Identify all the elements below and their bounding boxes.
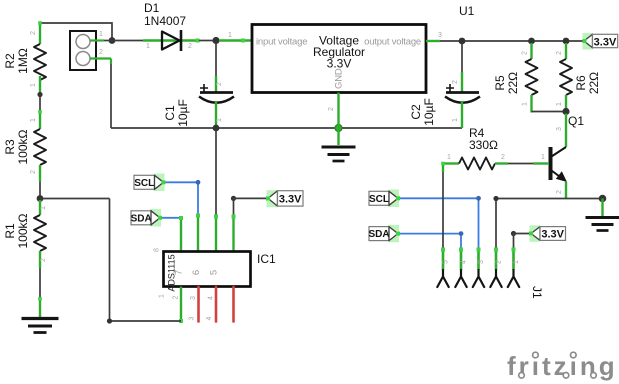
svg-text:GND: GND [334,68,345,89]
header J1 pin2 lead [495,249,498,270]
resistor R5 pin2 lead [530,43,532,59]
wire collector node down [565,114,567,148]
wire gnd rail down to IC pin6 [215,130,217,216]
transistor Q1 emitter arrowhead [556,171,567,182]
header J1 pin1 lead [512,249,515,270]
bendpoint dot 3.3V mid wire [231,196,236,201]
diode D1 triangle [162,32,180,50]
resistor R4 body [459,158,495,170]
net flag 3.3V top right arrow [584,34,593,47]
bendpoint dot emitter rail left [493,196,498,201]
header J1 pin5 fork [437,270,448,287]
net flag SDA right highlight [388,225,399,243]
IC1 pin4 stub unrouted [215,287,218,322]
IC1 pin6 lead [215,216,217,252]
transistor Q1 emitter lead [565,182,567,199]
bendpoint dot 3.3V bottom wire [511,231,516,236]
svg-text:3.3V: 3.3V [541,229,564,241]
wire node A to IC net [40,198,110,200]
svg-text:2: 2 [216,82,223,86]
net flag SCL right box [369,191,389,205]
wire node to diode anode [112,40,143,42]
capacitor C1 pin2 lead [215,76,217,92]
svg-text:2: 2 [501,154,505,161]
IC1 pin2 lead bottom [180,287,182,322]
wire R5 bottom to Q1 collector node [532,111,564,113]
wire SDA to IC pin8 [160,217,181,219]
junction dot ground right node [599,195,607,203]
svg-text:1: 1 [447,154,451,161]
net flag SDA right box [369,227,389,241]
svg-text:1: 1 [556,102,563,106]
svg-text:1: 1 [30,83,37,87]
svg-text:1MΩ: 1MΩ [16,48,30,74]
net flag SCL left box [134,175,155,189]
junction dot R6 top node [563,38,570,45]
junction dot Q1 collector node [562,108,569,115]
wire 3.3V flag to J1 pin1 [514,234,531,250]
wire output rail [440,40,584,42]
wire input node down to C1 [215,42,217,76]
svg-text:2: 2 [40,258,47,262]
bendpoint dot between R2 and R3 [37,92,42,97]
ground symbol bottom right [586,218,619,231]
connector J? 2-pin screw terminal box [70,31,96,70]
wire gnd node to ground symbol [337,130,339,145]
capacitor C2 pin2 lead [461,72,463,92]
capacitor C1 pin1 lead [215,101,217,127]
svg-text:3: 3 [556,127,563,131]
svg-text:3.3V: 3.3V [279,193,302,205]
terminal node SDA right tip [396,232,400,236]
diode D1 pin1 lead [143,39,199,41]
IC1 pin7 lead [197,215,199,252]
IC1 pin3 stub unrouted [197,287,200,322]
resistor R3 pin2 lead [39,165,41,182]
net flag 3.3V mid box [278,191,304,206]
svg-text:1: 1 [30,118,37,122]
fritzing watermark rings [519,352,597,378]
svg-text:2: 2 [30,170,37,174]
svg-text:1: 1 [228,32,232,39]
svg-text:output voltage: output voltage [364,37,421,48]
svg-text:100kΩ: 100kΩ [16,213,30,248]
resistor R1 pin1 lead [39,200,41,215]
svg-text:8: 8 [154,248,161,252]
header J1 pin4 fork [455,270,466,287]
bendpoint dot SDA wire [459,231,464,236]
ground symbol below regulator [322,147,356,161]
svg-text:10µF: 10µF [422,98,436,126]
svg-text:1: 1 [513,260,520,264]
svg-text:5: 5 [209,270,220,275]
connector pin1 stub [90,39,104,41]
IC1 pin5 lead [232,216,234,252]
capacitor C1 plus sign [200,84,208,92]
junction dot R5 top node [528,38,535,45]
svg-text:J1: J1 [530,286,544,299]
capacitor C1 bottom plate arc [199,97,234,103]
svg-text:2: 2 [99,49,103,56]
svg-text:3: 3 [189,316,196,320]
junction dot regulator gnd on rail [335,124,342,131]
resistor R5 pin1 lead [530,95,532,113]
net flag SDA left highlight [150,209,161,227]
svg-text:2: 2 [30,31,37,35]
svg-text:1: 1 [541,154,545,161]
wire C2 branch down [461,43,463,72]
svg-text:22Ω: 22Ω [506,72,520,94]
net flag 3.3V mid arrow [268,191,278,206]
net flag 3.3V top right highlight [583,33,594,50]
svg-text:R2: R2 [3,53,17,69]
svg-text:1: 1 [522,102,529,106]
net flag 3.3V mid highlight [267,190,278,207]
header J1 pin4 lead [460,249,463,270]
transistor Q1 emitter diagonal [552,171,564,180]
capacitor C1 top plate [200,91,233,94]
svg-text:IC1: IC1 [257,252,276,266]
net flag SDA left box [131,211,152,225]
resistor R4 pin1 lead [443,162,459,164]
junction dot C2 top node [459,38,466,45]
capacitor C2 bottom plate arc [445,97,480,103]
resistor R2 pin1 lead [39,76,41,92]
wire ground node down [601,199,603,217]
regulator output pin lead [426,40,440,42]
svg-text:3.3V: 3.3V [594,36,617,48]
transistor Q1 bar [549,147,553,180]
svg-text:2: 2 [556,190,563,194]
connector circle pin2 [76,52,90,66]
resistor R1 body [34,215,46,251]
header J1 pin2 fork [490,270,501,287]
svg-text:1: 1 [99,31,103,38]
svg-text:1: 1 [452,118,459,122]
resistor R5 body [526,59,538,95]
svg-text:6: 6 [191,270,202,275]
resistor R6 pin2 lead [565,43,567,59]
transistor Q1 base lead [533,162,549,164]
svg-text:R6: R6 [574,75,588,91]
IC1 box [164,252,251,287]
terminal node 3.3V top tip [583,39,587,43]
svg-text:Q1: Q1 [568,114,584,128]
svg-text:3.3V: 3.3V [327,57,352,71]
net flag SCL left highlight [154,174,165,192]
net flag SCL right highlight [388,190,399,208]
junction dot input node [212,37,219,44]
wire SDA to J1 pin4 [398,234,461,249]
svg-text:4: 4 [206,316,213,320]
terminal node 3.3V mid tip [266,196,270,200]
svg-text:2: 2 [188,43,192,50]
wire R4 to Q1 base [508,163,533,165]
IC1 pin stub unrouted third [232,287,235,322]
wire IC pin2 to node A [110,199,182,322]
svg-text:SCL: SCL [369,194,389,205]
wire R2 top to diode node [40,23,112,41]
svg-text:SDA: SDA [131,214,152,225]
wire R2 to R3 [39,95,41,112]
ground symbol below R1 [22,319,59,333]
capacitor C2 top plate [446,91,479,94]
svg-text:C1: C1 [163,105,177,121]
header J1 pin3 fork [473,270,484,287]
svg-text:4: 4 [461,260,468,264]
header J1 pin3 lead [477,249,480,270]
junction dot C1 on ground rail [213,125,220,132]
svg-text:2: 2 [173,295,180,299]
wire SCL to J1 pin3 [398,198,479,249]
svg-text:7: 7 [174,270,185,275]
resistor R3 pin1 lead [39,111,41,129]
wire input node to regulator [219,39,252,41]
svg-text:1: 1 [159,294,166,298]
svg-text:2: 2 [556,51,563,55]
regulator input terminal [241,39,245,43]
net flag 3.3V top right box [593,34,618,47]
net flag SCL left arrow [155,175,164,189]
wire R1 to ground [39,268,41,299]
resistor R3 body [34,129,46,165]
ground rail wire [111,127,462,129]
svg-text:R5: R5 [493,75,507,91]
header J1 pin5 lead [442,249,445,270]
svg-text:U1: U1 [459,4,475,18]
wire emitter rail down to J1 pin2 [495,200,497,249]
svg-text:C2: C2 [409,104,423,120]
net flag 3.3V bottom highlight [530,225,541,242]
capacitor C2 pin1 lead [461,101,463,128]
terminal node SDA left tip [158,216,162,220]
svg-text:R3: R3 [3,139,17,155]
net flag SDA left arrow [151,211,160,225]
svg-text:2: 2 [522,51,529,55]
voltage regulator U1 box [252,25,426,93]
svg-text:5: 5 [443,260,450,264]
wire diode to input node [199,40,213,42]
transistor Q1 collector diagonal [552,147,567,157]
svg-text:2: 2 [452,80,459,84]
terminal node 3.3V bottom tip [529,232,533,236]
wire R4 left down to J1 pin5 [442,165,444,172]
net flag SDA right arrow [389,227,398,241]
IC1 pin8 lead [180,218,182,252]
svg-text:input voltage: input voltage [256,37,307,48]
svg-text:4: 4 [208,296,215,300]
wire R3 to node A [39,182,41,196]
svg-text:SDA: SDA [368,229,389,240]
resistor R2 pin2 lead [39,23,41,44]
resistor R2 body [34,44,46,80]
connector circle pin1 [76,35,90,49]
resistor R6 body [560,59,572,95]
wire 3.3V flag to IC pin5 [234,198,268,216]
svg-text:2: 2 [328,107,335,111]
net flag SCL right arrow [389,191,398,205]
header J1 pin1 fork [508,270,519,287]
svg-text:3: 3 [438,32,442,39]
node A junction dot [37,195,44,202]
svg-text:10µF: 10µF [176,99,190,127]
svg-text:1N4007: 1N4007 [144,14,186,28]
svg-text:1: 1 [216,118,223,122]
bendpoint dot SCL left wire [196,180,201,185]
resistor R4 pin2 lead [495,162,508,164]
wire emitter rail [496,198,601,200]
ground lead below R1 [39,299,41,317]
net flag 3.3V bottom arrow [531,227,540,241]
diode D1 cathode bar [180,30,183,51]
bendpoint dot IC wire corner [107,318,112,323]
svg-text:330Ω: 330Ω [469,138,498,152]
svg-text:1: 1 [40,206,47,210]
svg-text:22Ω: 22Ω [587,72,601,94]
terminal node SCL left tip [162,180,166,184]
svg-text:2: 2 [496,260,503,264]
wire connector pin2 down to ground rail [110,59,112,65]
resistor R1 pin2 lead [39,251,41,268]
junction dot connector pin1 node [109,37,116,44]
svg-text:100kΩ: 100kΩ [16,129,30,164]
svg-text:SCL: SCL [134,178,154,189]
svg-text:3: 3 [190,296,197,300]
net flag 3.3V bottom box [540,227,566,241]
svg-text:R1: R1 [3,223,17,239]
regulator gnd lead [337,93,339,127]
connector pin2 stub [90,57,111,59]
terminal node SCL right tip [396,196,400,200]
svg-text:1: 1 [146,43,150,50]
wire SCL to IC pin7 [164,182,199,215]
svg-text:D1: D1 [144,1,160,15]
bendpoint dot SCL wire [476,196,481,201]
resistor R6 pin1 lead [565,95,567,110]
svg-text:3: 3 [478,260,485,264]
capacitor C2 plus sign [446,84,454,92]
